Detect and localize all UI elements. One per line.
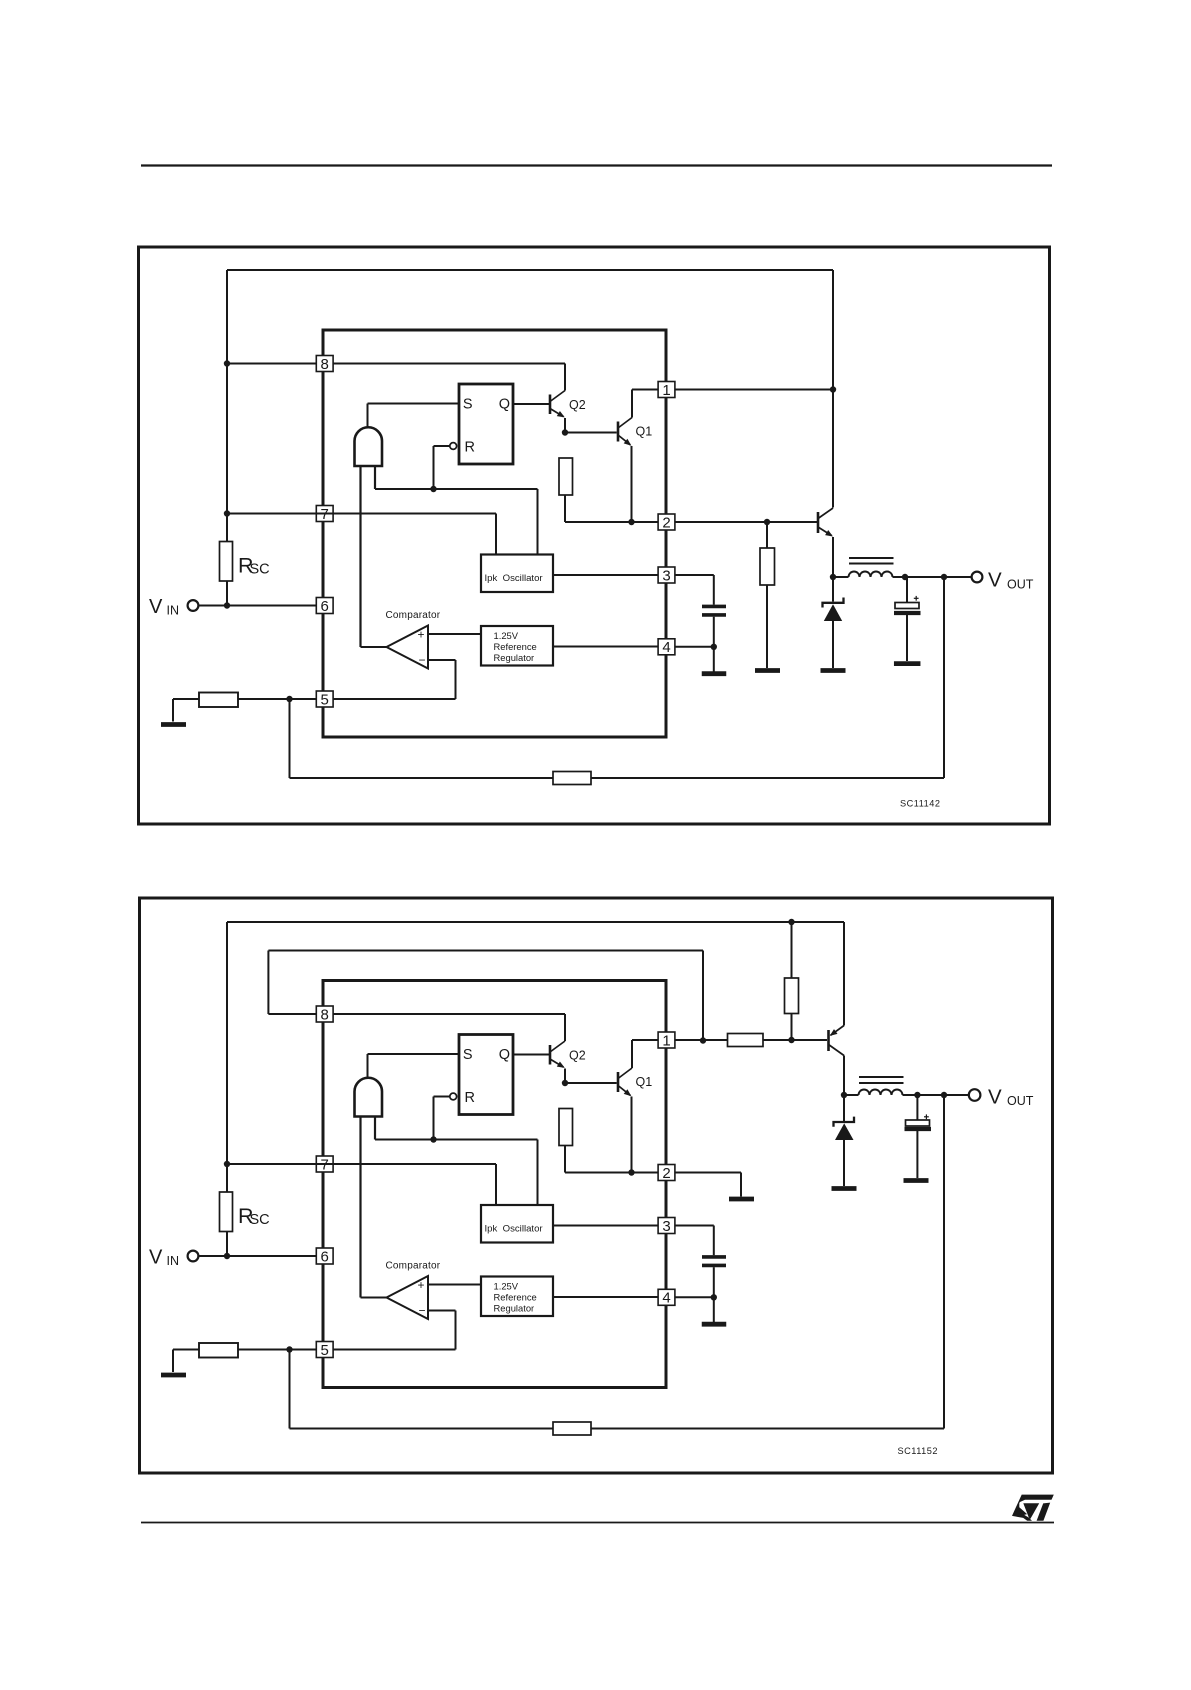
svg-text:OUT: OUT <box>1007 1094 1034 1108</box>
svg-text:+: + <box>417 628 424 642</box>
svg-text:Q: Q <box>499 1047 510 1063</box>
svg-text:V: V <box>149 596 163 618</box>
svg-text:−: − <box>418 1304 425 1318</box>
svg-text:Q1: Q1 <box>636 1075 653 1089</box>
svg-text:V: V <box>149 1247 163 1269</box>
svg-text:SC11142: SC11142 <box>900 799 940 809</box>
svg-text:1.25V: 1.25V <box>494 630 519 641</box>
svg-text:3: 3 <box>662 1218 670 1235</box>
svg-text:2: 2 <box>662 514 670 531</box>
svg-text:Ipk Oscillator: Ipk Oscillator <box>485 1224 544 1235</box>
svg-text:R: R <box>465 1090 475 1106</box>
svg-text:1.25V: 1.25V <box>494 1281 519 1292</box>
svg-text:6: 6 <box>321 1248 329 1265</box>
svg-text:4: 4 <box>662 639 670 656</box>
svg-text:Q: Q <box>499 396 510 412</box>
svg-text:R: R <box>465 440 475 456</box>
svg-text:Regulator: Regulator <box>494 1303 535 1314</box>
svg-text:SC: SC <box>250 562 270 578</box>
svg-text:2: 2 <box>662 1165 670 1182</box>
svg-text:5: 5 <box>321 691 329 708</box>
svg-text:Reference: Reference <box>494 1292 537 1303</box>
svg-text:8: 8 <box>321 356 329 373</box>
svg-text:S: S <box>463 1047 473 1063</box>
svg-text:Q2: Q2 <box>569 398 586 412</box>
svg-text:Comparator: Comparator <box>386 610 441 621</box>
svg-text:Comparator: Comparator <box>386 1261 441 1272</box>
svg-text:OUT: OUT <box>1007 578 1034 592</box>
svg-text:4: 4 <box>662 1290 670 1307</box>
svg-text:IN: IN <box>167 1254 180 1268</box>
svg-text:SC: SC <box>250 1212 270 1228</box>
svg-text:1: 1 <box>662 1032 670 1049</box>
svg-text:Regulator: Regulator <box>494 652 535 663</box>
svg-text:5: 5 <box>321 1342 329 1359</box>
svg-text:Ipk Oscillator: Ipk Oscillator <box>485 573 544 584</box>
svg-text:−: − <box>418 653 425 667</box>
svg-text:Reference: Reference <box>494 641 537 652</box>
svg-text:Q2: Q2 <box>569 1049 586 1063</box>
svg-text:6: 6 <box>321 598 329 615</box>
svg-text:IN: IN <box>167 604 180 618</box>
svg-text:1: 1 <box>662 382 670 399</box>
svg-text:8: 8 <box>321 1006 329 1023</box>
svg-text:3: 3 <box>662 567 670 584</box>
svg-text:S: S <box>463 396 473 412</box>
svg-text:Q1: Q1 <box>636 425 653 439</box>
svg-text:+: + <box>417 1278 424 1292</box>
svg-text:V: V <box>988 1086 1002 1109</box>
svg-text:SC11152: SC11152 <box>898 1446 938 1456</box>
svg-text:V: V <box>988 569 1002 592</box>
